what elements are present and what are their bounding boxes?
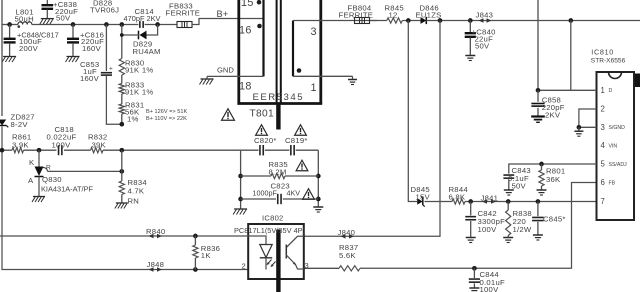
svg-text:100V: 100V — [52, 140, 72, 149]
svg-text:5: 5 — [601, 160, 606, 169]
svg-text:50uH: 50uH — [15, 15, 34, 24]
svg-text:PC817L1(5V/35V 4P): PC817L1(5V/35V 4P) — [234, 226, 305, 235]
svg-text:200V: 200V — [19, 44, 39, 53]
svg-text:K: K — [29, 158, 35, 167]
svg-text:16: 16 — [239, 25, 252, 37]
svg-text:100V: 100V — [480, 285, 500, 292]
svg-text:S/GND: S/GND — [609, 125, 626, 131]
svg-text:50V: 50V — [512, 182, 527, 191]
svg-text:KIA431A-AT/PF: KIA431A-AT/PF — [41, 185, 94, 194]
svg-text:A: A — [28, 176, 34, 185]
svg-text:C845*: C845* — [543, 215, 566, 224]
svg-text:1000pF: 1000pF — [253, 188, 278, 197]
svg-text:91K 1%: 91K 1% — [125, 87, 153, 96]
svg-text:RU4AM: RU4AM — [133, 47, 161, 56]
svg-text:R: R — [46, 165, 51, 172]
svg-text:50V: 50V — [56, 14, 71, 23]
svg-text:+: + — [109, 66, 113, 73]
svg-text:B+ 126V => 51K: B+ 126V => 51K — [146, 109, 187, 115]
svg-text:4KV: 4KV — [287, 188, 301, 197]
svg-text:5.6K: 5.6K — [339, 251, 356, 260]
svg-text:J848: J848 — [147, 260, 165, 269]
svg-text:91K 1%: 91K 1% — [125, 65, 153, 74]
svg-text:160V: 160V — [82, 44, 102, 53]
svg-text:SS/ADJ: SS/ADJ — [609, 162, 628, 168]
svg-text:D: D — [609, 88, 613, 94]
svg-text:12: 12 — [389, 10, 398, 19]
svg-text:GND: GND — [217, 66, 234, 75]
svg-text:3: 3 — [305, 261, 309, 270]
svg-text:J840: J840 — [338, 228, 356, 237]
svg-text:470pF 2KV: 470pF 2KV — [124, 14, 161, 23]
svg-text:1K: 1K — [201, 251, 212, 260]
svg-text:1: 1 — [601, 86, 606, 95]
svg-text:2KV: 2KV — [545, 110, 561, 119]
svg-text:36K: 36K — [546, 175, 561, 184]
svg-text:FB: FB — [609, 180, 616, 186]
svg-text:VIN: VIN — [609, 143, 618, 149]
svg-text:STR-X6556: STR-X6556 — [591, 57, 626, 64]
svg-text:Q830: Q830 — [42, 175, 62, 184]
svg-text:B+: B+ — [217, 9, 229, 19]
svg-text:2: 2 — [242, 262, 246, 271]
svg-text:FERRITE: FERRITE — [166, 8, 201, 17]
svg-text:J843: J843 — [476, 10, 494, 19]
svg-text:3: 3 — [311, 26, 317, 38]
svg-text:50V: 50V — [475, 42, 490, 51]
svg-text:R840: R840 — [146, 227, 165, 236]
svg-text:FERRITE: FERRITE — [339, 10, 374, 19]
svg-text:IC810: IC810 — [591, 48, 614, 57]
svg-text:IC802: IC802 — [262, 214, 284, 223]
svg-text:J841: J841 — [481, 194, 499, 203]
svg-text:3: 3 — [601, 123, 606, 132]
svg-text:1%: 1% — [127, 114, 139, 123]
svg-text:1: 1 — [311, 82, 317, 94]
svg-text:B+ 110V => 22K: B+ 110V => 22K — [146, 116, 187, 122]
svg-text:7: 7 — [601, 197, 606, 206]
svg-text:TVR06J: TVR06J — [90, 5, 119, 14]
svg-text:1/2W: 1/2W — [513, 225, 532, 234]
svg-text:EU1ZS: EU1ZS — [416, 10, 442, 19]
svg-text:160V: 160V — [80, 74, 100, 83]
svg-text:2: 2 — [601, 105, 606, 114]
svg-text:8.2M: 8.2M — [269, 167, 287, 176]
svg-text:15: 15 — [241, 0, 254, 9]
svg-text:C819*: C819* — [285, 136, 308, 145]
svg-text:6.8K: 6.8K — [449, 193, 466, 202]
svg-text:C820*: C820* — [254, 136, 277, 145]
svg-text:15V: 15V — [416, 193, 431, 202]
svg-text:18: 18 — [239, 81, 252, 93]
svg-text:T801: T801 — [250, 109, 274, 120]
svg-text:4: 4 — [601, 141, 606, 150]
svg-text:4.7K: 4.7K — [128, 187, 145, 196]
svg-text:39K: 39K — [92, 140, 107, 149]
svg-text:3.9K: 3.9K — [12, 140, 29, 149]
svg-text:EER5345: EER5345 — [253, 92, 305, 103]
svg-text:6: 6 — [601, 178, 606, 187]
svg-text:RN: RN — [128, 197, 140, 206]
svg-text:8-2V: 8-2V — [11, 120, 29, 129]
svg-text:100V: 100V — [478, 225, 498, 234]
